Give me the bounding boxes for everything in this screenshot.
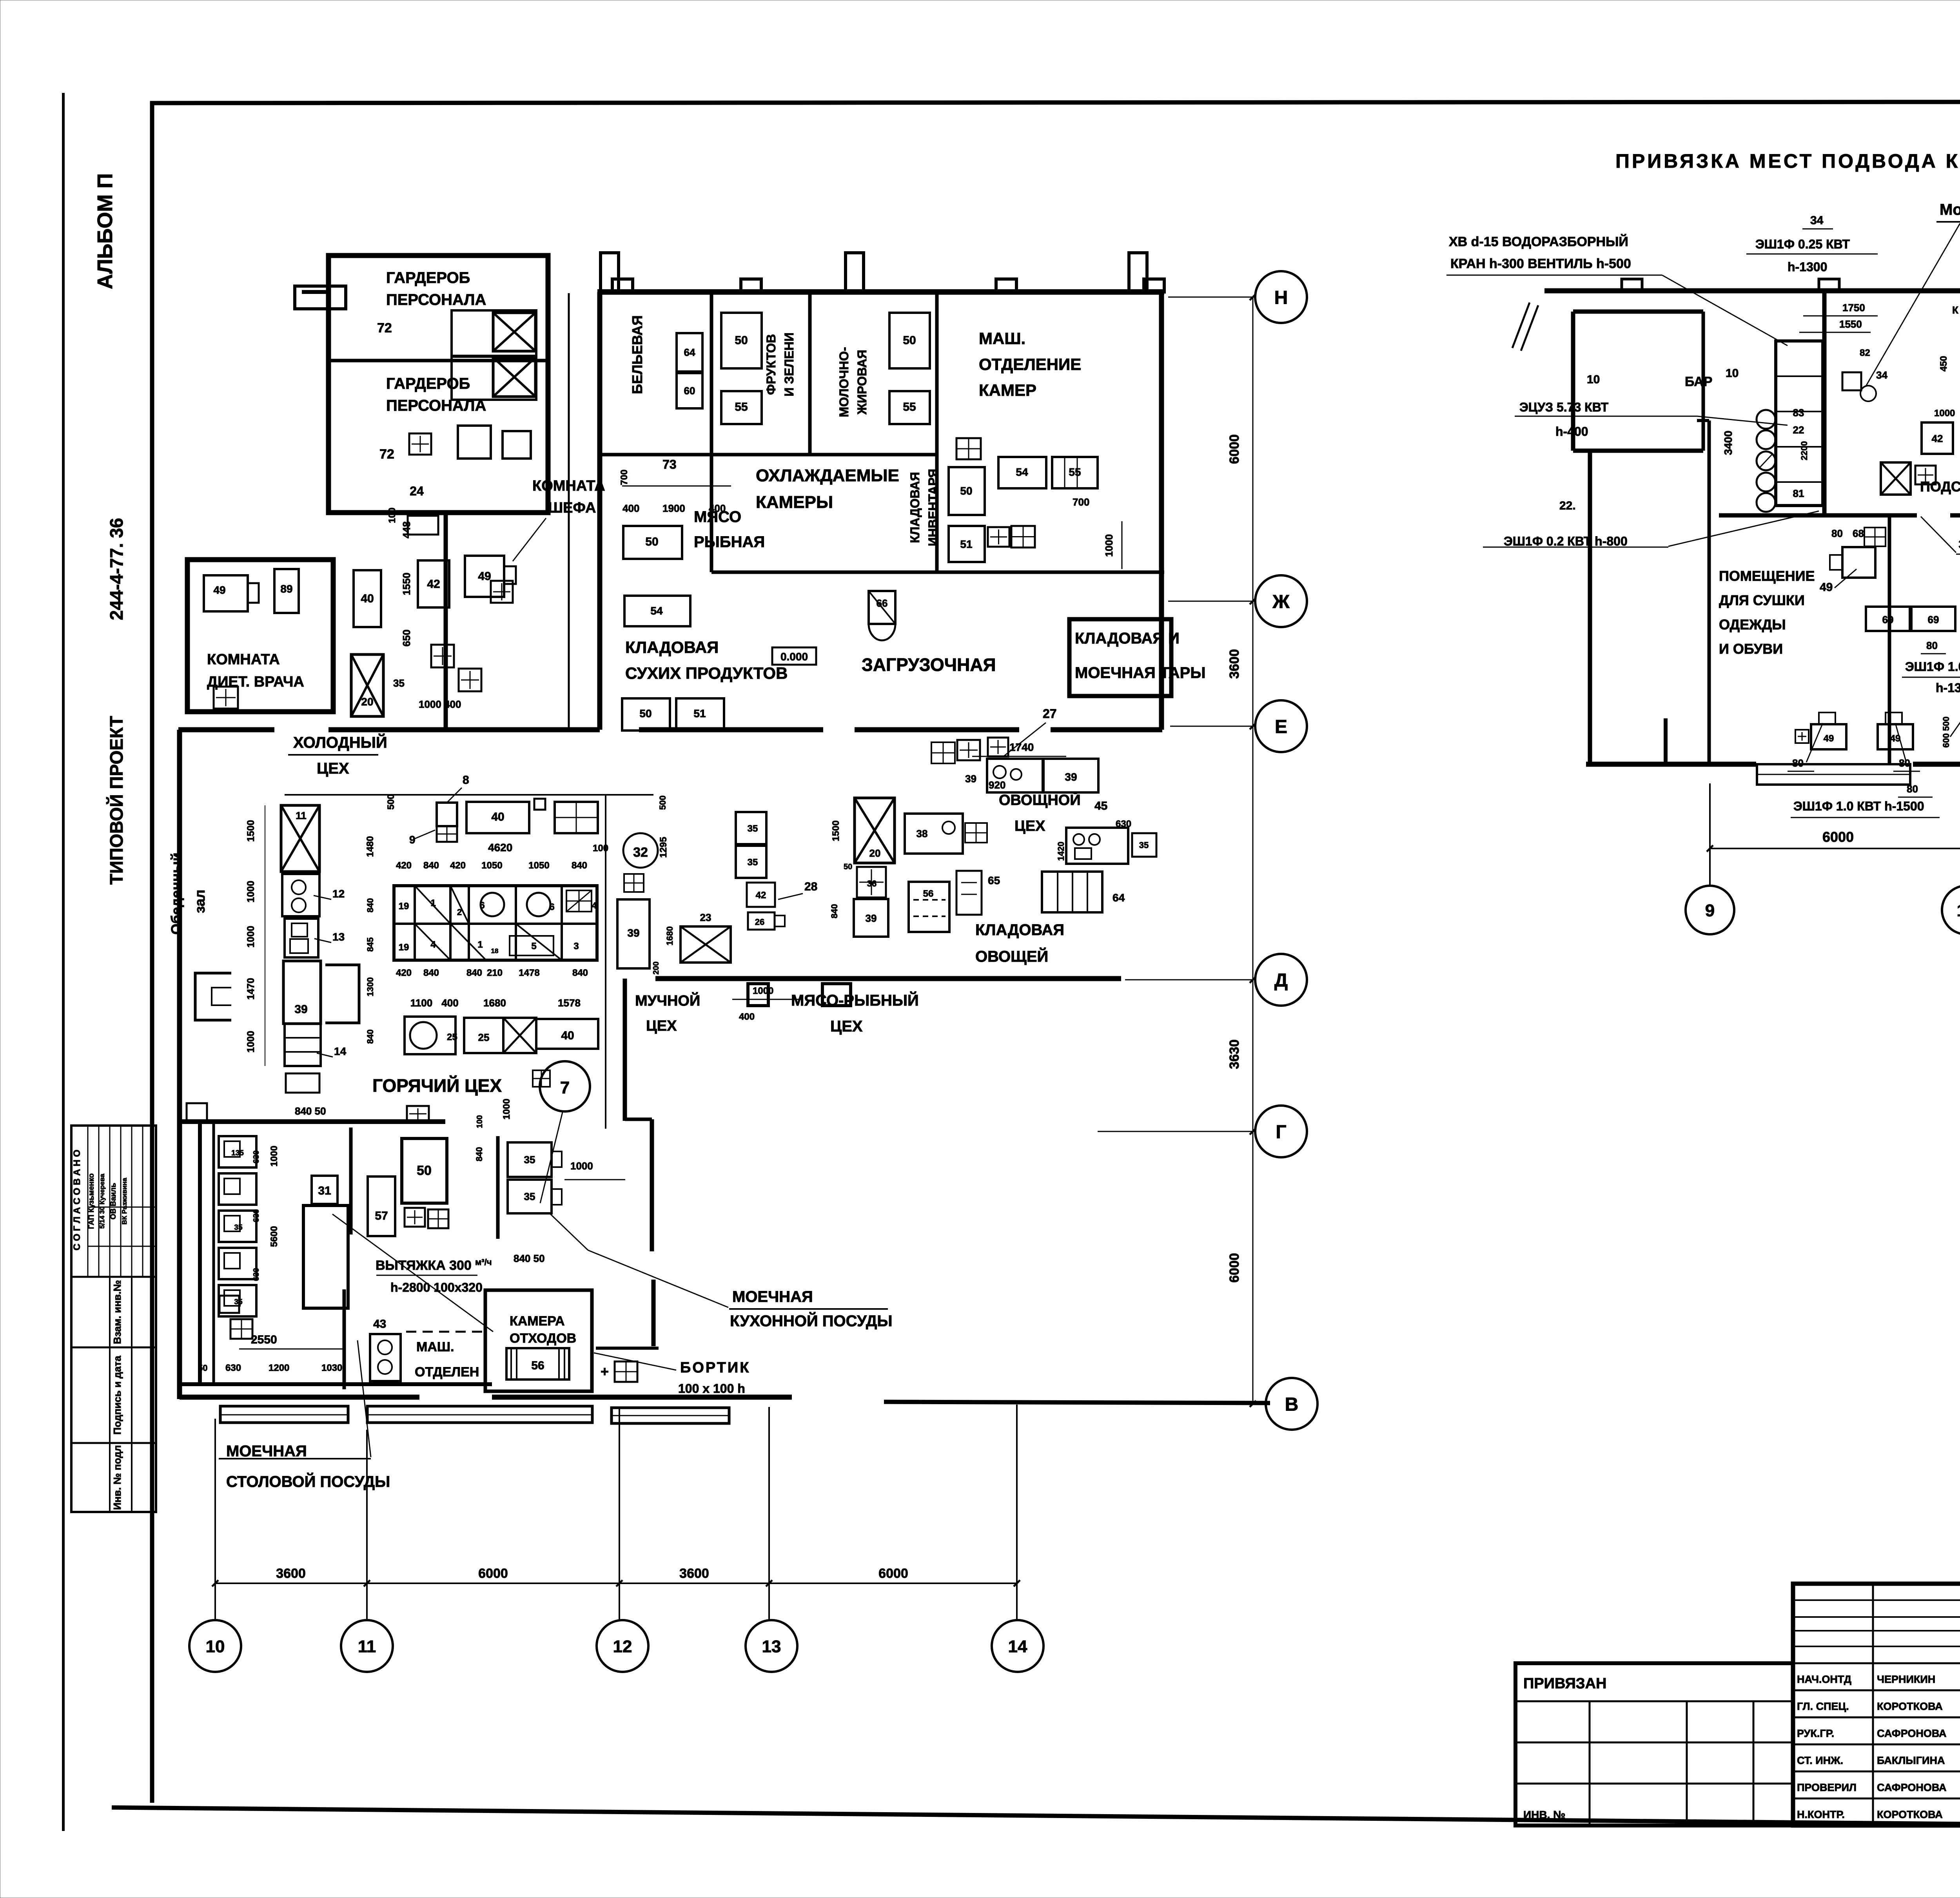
svg-text:81: 81: [1793, 488, 1804, 499]
svg-text:66: 66: [877, 597, 888, 609]
svg-text:Е: Е: [1275, 716, 1287, 737]
svg-text:3: 3: [573, 941, 579, 952]
svg-text:1000: 1000: [753, 986, 773, 996]
svg-text:420: 420: [396, 968, 412, 978]
svg-text:56: 56: [923, 888, 934, 899]
svg-text:10: 10: [1587, 373, 1600, 386]
svg-text:600 500: 600 500: [1941, 716, 1951, 748]
svg-text:РЫБНАЯ: РЫБНАЯ: [694, 533, 765, 551]
svg-text:КОМНАТА: КОМНАТА: [532, 478, 605, 494]
svg-text:20: 20: [361, 696, 373, 708]
svg-text:ИНВЕНТАРЯ: ИНВЕНТАРЯ: [926, 469, 940, 546]
svg-text:5600: 5600: [269, 1226, 279, 1247]
svg-text:42: 42: [427, 578, 440, 591]
svg-text:И ОБУВИ: И ОБУВИ: [1719, 641, 1783, 657]
svg-text:35: 35: [748, 857, 758, 868]
svg-text:АЛЬБОМ П: АЛЬБОМ П: [93, 173, 117, 289]
svg-text:50: 50: [903, 334, 916, 347]
svg-text:3630: 3630: [1227, 1039, 1242, 1069]
svg-text:11: 11: [358, 1637, 376, 1656]
svg-text:69: 69: [1882, 614, 1894, 625]
svg-text:1000: 1000: [269, 1146, 279, 1166]
svg-text:МОЛОЧНО-: МОЛОЧНО-: [837, 347, 851, 417]
svg-text:ЦЕХ: ЦЕХ: [830, 1018, 863, 1035]
svg-text:ИНВ. №: ИНВ. №: [1523, 1809, 1565, 1821]
svg-text:35: 35: [748, 823, 758, 834]
svg-text:К: К: [1952, 304, 1958, 316]
svg-text:31: 31: [318, 1184, 331, 1197]
svg-text:СУХИХ ПРОДУКТОВ: СУХИХ ПРОДУКТОВ: [625, 664, 788, 682]
svg-text:83: 83: [1793, 407, 1804, 419]
svg-text:h-1300: h-1300: [1936, 681, 1960, 695]
svg-text:49: 49: [213, 584, 225, 596]
svg-text:55: 55: [903, 401, 916, 413]
svg-text:10: 10: [1957, 901, 1960, 920]
svg-text:9: 9: [409, 834, 416, 846]
svg-text:КЛАДОВАЯ: КЛАДОВАЯ: [625, 638, 719, 656]
svg-text:65: 65: [988, 874, 1000, 886]
svg-text:ЭШ1Ф 0.25 КВТ: ЭШ1Ф 0.25 КВТ: [1958, 537, 1960, 551]
svg-text:ПОДСОБНАЯ: ПОДСОБНАЯ: [1920, 479, 1960, 495]
svg-text:100 x 100 h: 100 x 100 h: [678, 1381, 745, 1396]
svg-text:Н.КОНТР.: Н.КОНТР.: [1797, 1809, 1845, 1820]
svg-text:35: 35: [393, 677, 405, 689]
svg-text:ПРИВЯЗАН: ПРИВЯЗАН: [1523, 1675, 1606, 1692]
svg-text:700: 700: [619, 470, 630, 485]
svg-text:244-4-77. 36: 244-4-77. 36: [106, 518, 127, 620]
svg-text:3600: 3600: [1227, 649, 1242, 679]
svg-text:51: 51: [693, 707, 706, 720]
svg-text:Н: Н: [1274, 287, 1288, 308]
svg-text:3400: 3400: [1722, 431, 1734, 455]
svg-text:ГАРДЕРОБ: ГАРДЕРОБ: [386, 375, 470, 392]
svg-text:18: 18: [491, 947, 499, 955]
svg-text:5: 5: [531, 941, 536, 952]
svg-text:49: 49: [1820, 581, 1833, 594]
svg-text:КАМЕР: КАМЕР: [979, 381, 1036, 399]
svg-text:450: 450: [1938, 356, 1949, 372]
svg-text:210: 210: [487, 968, 503, 978]
svg-text:БОРТИК: БОРТИК: [680, 1360, 750, 1376]
svg-text:ГОРЯЧИЙ ЦЕХ: ГОРЯЧИЙ ЦЕХ: [372, 1075, 502, 1096]
svg-text:ОТХОДОВ: ОТХОДОВ: [510, 1331, 576, 1346]
svg-text:10: 10: [206, 1637, 225, 1656]
svg-text:1740: 1740: [1009, 741, 1034, 753]
svg-text:135: 135: [231, 1149, 244, 1157]
svg-text:2: 2: [457, 907, 462, 917]
svg-text:Подпись и дата: Подпись и дата: [111, 1356, 123, 1435]
svg-text:34: 34: [1876, 369, 1887, 381]
svg-text:СТОЛОВОЙ ПОСУДЫ: СТОЛОВОЙ ПОСУДЫ: [226, 1472, 390, 1490]
svg-text:100: 100: [475, 1115, 484, 1128]
svg-text:400: 400: [441, 997, 458, 1009]
svg-text:h-2800 100x320: h-2800 100x320: [390, 1280, 483, 1294]
svg-text:1000: 1000: [245, 1031, 256, 1053]
svg-text:КАМЕРЫ: КАМЕРЫ: [756, 493, 833, 512]
svg-text:1470: 1470: [245, 978, 256, 1000]
svg-text:1050: 1050: [528, 860, 549, 871]
svg-text:72: 72: [379, 447, 394, 462]
svg-text:840: 840: [365, 1030, 375, 1044]
svg-text:45: 45: [1094, 799, 1107, 812]
svg-text:Г: Г: [1276, 1122, 1286, 1142]
svg-text:ТИПОВОЙ ПРОЕКТ: ТИПОВОЙ ПРОЕКТ: [106, 716, 127, 885]
svg-text:1000: 1000: [1934, 408, 1955, 419]
svg-text:36: 36: [867, 879, 877, 888]
svg-text:51: 51: [960, 538, 972, 550]
svg-text:50: 50: [960, 485, 972, 497]
svg-text:55: 55: [1069, 466, 1081, 478]
svg-text:НАЧ.ОНТД: НАЧ.ОНТД: [1797, 1673, 1851, 1685]
svg-text:1000 400: 1000 400: [419, 698, 461, 710]
svg-text:4: 4: [592, 901, 597, 910]
svg-text:840: 840: [423, 860, 439, 871]
svg-text:68: 68: [1853, 528, 1864, 539]
svg-text:80: 80: [1792, 757, 1804, 769]
svg-text:ДЛЯ СУШКИ: ДЛЯ СУШКИ: [1719, 592, 1805, 608]
svg-text:38: 38: [916, 828, 928, 839]
svg-text:МОЕЧНАЯ: МОЕЧНАЯ: [226, 1443, 307, 1460]
svg-text:ОВОЩЕЙ: ОВОЩЕЙ: [975, 947, 1048, 965]
svg-text:80: 80: [1899, 757, 1910, 769]
svg-text:зал: зал: [192, 890, 208, 913]
svg-text:ЭШ1Ф 1.0 КВТ: ЭШ1Ф 1.0 КВТ: [1905, 660, 1960, 674]
svg-text:840: 840: [474, 1147, 484, 1162]
svg-text:840: 840: [572, 860, 587, 871]
svg-text:11: 11: [296, 810, 307, 821]
svg-text:6000: 6000: [1822, 829, 1854, 845]
svg-text:1050: 1050: [481, 860, 502, 871]
svg-text:Взам. инв.№: Взам. инв.№: [111, 1280, 123, 1344]
svg-text:ЭШ1Ф 0.2 КВТ h-800: ЭШ1Ф 0.2 КВТ h-800: [1504, 534, 1628, 548]
svg-text:49: 49: [1824, 733, 1834, 744]
svg-text:28: 28: [804, 880, 817, 893]
svg-text:14: 14: [1008, 1637, 1027, 1656]
svg-text:60: 60: [684, 385, 695, 397]
svg-text:840: 840: [423, 968, 439, 978]
svg-text:650: 650: [401, 629, 412, 646]
svg-text:50: 50: [198, 1363, 207, 1373]
svg-text:49: 49: [478, 570, 491, 583]
svg-text:27: 27: [1043, 707, 1057, 721]
svg-text:840: 840: [572, 968, 588, 978]
svg-text:35: 35: [1139, 840, 1149, 850]
svg-text:89: 89: [280, 583, 292, 595]
svg-text:13: 13: [332, 931, 345, 943]
svg-text:h-400: h-400: [1555, 424, 1588, 439]
svg-text:5/14 30 Кучерева: 5/14 30 Кучерева: [98, 1173, 106, 1229]
svg-text:ЭШ1Ф 1.0 КВТ h-1500: ЭШ1Ф 1.0 КВТ h-1500: [1793, 799, 1924, 813]
svg-text:1: 1: [477, 939, 483, 950]
svg-text:3600: 3600: [679, 1566, 709, 1581]
svg-text:43: 43: [373, 1318, 386, 1331]
svg-text:80: 80: [1926, 640, 1938, 651]
svg-text:22.: 22.: [1559, 499, 1576, 512]
svg-text:ВК Разживина: ВК Разживина: [121, 1178, 128, 1225]
svg-text:845: 845: [365, 937, 375, 952]
svg-text:630: 630: [225, 1363, 241, 1373]
svg-text:КУХОННОЙ ПОСУДЫ: КУХОННОЙ ПОСУДЫ: [730, 1312, 893, 1330]
svg-text:САФРОНОВА: САФРОНОВА: [1877, 1782, 1947, 1793]
svg-text:+: +: [601, 1363, 609, 1380]
svg-text:КЛАДОВАЯ И: КЛАДОВАЯ И: [1075, 630, 1180, 647]
svg-text:1900: 1900: [662, 502, 685, 514]
svg-text:ЗАГРУЗОЧНАЯ: ЗАГРУЗОЧНАЯ: [862, 654, 996, 675]
svg-text:ЖИРОВАЯ: ЖИРОВАЯ: [855, 350, 869, 415]
svg-text:1000: 1000: [501, 1099, 512, 1119]
svg-text:СТ. ИНЖ.: СТ. ИНЖ.: [1797, 1755, 1843, 1766]
svg-text:КОРОТКОВА: КОРОТКОВА: [1877, 1809, 1943, 1820]
svg-text:ХВ d-15 ВОДОРАЗБОРНЫЙ: ХВ d-15 ВОДОРАЗБОРНЫЙ: [1449, 234, 1628, 249]
svg-text:39: 39: [866, 912, 877, 924]
svg-text:Моечная: Моечная: [1940, 201, 1960, 218]
svg-text:ЦЕХ: ЦЕХ: [646, 1018, 677, 1034]
svg-text:500: 500: [658, 796, 668, 810]
svg-text:39: 39: [627, 927, 639, 939]
svg-text:h-1300: h-1300: [1788, 260, 1827, 274]
svg-text:1000: 1000: [1103, 534, 1115, 557]
svg-text:12: 12: [613, 1637, 632, 1656]
svg-text:6000: 6000: [478, 1566, 508, 1581]
svg-text:1480: 1480: [365, 836, 376, 857]
svg-text:ЦЕХ: ЦЕХ: [317, 760, 349, 777]
svg-text:25: 25: [447, 1032, 457, 1042]
svg-text:1550: 1550: [401, 573, 412, 595]
svg-text:ПРИВЯЗКА МЕСТ ПОДВОДА КО: ПРИВЯЗКА МЕСТ ПОДВОДА КОММУНИКАЦИЙ: [1615, 150, 1960, 172]
svg-text:КОРОТКОВА: КОРОТКОВА: [1877, 1700, 1943, 1712]
svg-text:40: 40: [491, 810, 504, 823]
svg-text:КРАН h-300 ВЕНТИЛЬ h-500: КРАН h-300 ВЕНТИЛЬ h-500: [1450, 256, 1631, 271]
svg-text:20: 20: [869, 847, 881, 859]
svg-text:1478: 1478: [519, 968, 539, 978]
svg-text:9: 9: [1705, 901, 1715, 920]
svg-text:42: 42: [1932, 433, 1943, 444]
svg-text:МЯСО: МЯСО: [694, 508, 741, 526]
svg-text:ЧЕРНИКИН: ЧЕРНИКИН: [1877, 1673, 1935, 1685]
svg-text:39: 39: [1065, 771, 1077, 783]
svg-text:34: 34: [1810, 214, 1824, 227]
svg-text:1680: 1680: [665, 926, 675, 946]
svg-text:БАКЛЫГИНА: БАКЛЫГИНА: [1877, 1755, 1945, 1766]
svg-text:1420: 1420: [1056, 842, 1066, 861]
svg-text:И ЗЕЛЕНИ: И ЗЕЛЕНИ: [782, 332, 796, 396]
svg-text:ШЕФА: ШЕФА: [548, 500, 596, 516]
svg-text:1300: 1300: [365, 977, 375, 997]
svg-text:55: 55: [735, 401, 748, 413]
svg-text:ОТДЕЛЕНИЕ: ОТДЕЛЕНИЕ: [979, 355, 1081, 373]
svg-text:24: 24: [410, 484, 424, 498]
svg-text:12: 12: [332, 888, 345, 900]
svg-text:72: 72: [377, 321, 392, 335]
svg-text:РУК.ГР.: РУК.ГР.: [1797, 1728, 1834, 1739]
svg-text:1578: 1578: [558, 997, 581, 1009]
svg-text:7: 7: [560, 1078, 570, 1097]
svg-text:САФРОНОВА: САФРОНОВА: [1877, 1728, 1947, 1739]
svg-text:6000: 6000: [1227, 434, 1242, 464]
svg-text:26: 26: [755, 917, 764, 927]
svg-text:64: 64: [684, 346, 695, 358]
svg-text:ОТДЕЛЕН: ОТДЕЛЕН: [415, 1365, 479, 1380]
svg-text:25: 25: [478, 1031, 490, 1043]
svg-text:400: 400: [622, 502, 639, 514]
svg-text:6: 6: [549, 902, 554, 912]
svg-text:МОЕЧНАЯ: МОЕЧНАЯ: [732, 1288, 813, 1305]
svg-text:1680: 1680: [483, 997, 506, 1009]
svg-text:54: 54: [650, 605, 663, 617]
svg-text:50: 50: [417, 1163, 432, 1178]
svg-text:40: 40: [361, 592, 374, 605]
svg-text:50: 50: [844, 863, 852, 871]
svg-text:ДИЕТ. ВРАЧА: ДИЕТ. ВРАЧА: [207, 674, 304, 690]
svg-text:ПЕРСОНАЛА: ПЕРСОНАЛА: [386, 291, 486, 308]
svg-text:3600: 3600: [276, 1566, 306, 1581]
svg-text:35: 35: [524, 1191, 535, 1202]
svg-text:420: 420: [396, 860, 412, 871]
svg-text:Д: Д: [1274, 970, 1288, 991]
svg-text:700: 700: [1073, 496, 1089, 508]
svg-text:500: 500: [386, 794, 396, 810]
svg-text:19: 19: [399, 942, 409, 953]
svg-text:0.000: 0.000: [780, 651, 808, 663]
svg-text:ФРУКТОВ: ФРУКТОВ: [764, 334, 778, 395]
svg-text:КЛАДОВАЯ: КЛАДОВАЯ: [975, 921, 1064, 939]
svg-text:57: 57: [375, 1209, 388, 1222]
svg-text:14: 14: [334, 1045, 347, 1057]
svg-text:1030: 1030: [321, 1363, 342, 1373]
svg-text:ОВ Ваиль: ОВ Ваиль: [109, 1183, 118, 1220]
svg-text:1750: 1750: [1842, 302, 1865, 314]
svg-text:56: 56: [531, 1359, 544, 1372]
svg-text:ГАРДЕРОБ: ГАРДЕРОБ: [386, 269, 470, 286]
svg-text:8: 8: [463, 774, 469, 787]
svg-text:ГЛ. СПЕЦ.: ГЛ. СПЕЦ.: [1797, 1700, 1849, 1712]
svg-text:80: 80: [1831, 528, 1843, 539]
svg-text:КАМЕРА: КАМЕРА: [510, 1314, 565, 1329]
svg-text:840 50: 840 50: [514, 1253, 545, 1264]
svg-text:73: 73: [662, 457, 677, 471]
svg-text:ОДЕЖДЫ: ОДЕЖДЫ: [1719, 616, 1786, 633]
svg-text:ЦЕХ: ЦЕХ: [1014, 818, 1045, 834]
svg-text:В: В: [1285, 1394, 1299, 1415]
svg-text:ЭШ1Ф 0.25 КВТ: ЭШ1Ф 0.25 КВТ: [1755, 237, 1850, 251]
svg-text:448: 448: [401, 521, 412, 538]
svg-text:ОХЛАЖДАЕМЫЕ: ОХЛАЖДАЕМЫЕ: [756, 466, 899, 485]
svg-text:КЛАДОВАЯ: КЛАДОВАЯ: [908, 472, 922, 543]
svg-text:2200: 2200: [1799, 441, 1809, 460]
svg-text:БАР: БАР: [1685, 374, 1712, 389]
svg-text:400: 400: [739, 1012, 755, 1022]
svg-text:ХОЛОДНЫЙ: ХОЛОДНЫЙ: [293, 733, 387, 751]
svg-text:10: 10: [1726, 367, 1739, 380]
svg-text:МУЧНОЙ: МУЧНОЙ: [635, 992, 700, 1009]
svg-text:23: 23: [700, 912, 711, 923]
svg-text:ЭЦУЗ 5.73 КВТ: ЭЦУЗ 5.73 КВТ: [1519, 400, 1609, 414]
svg-text:6000: 6000: [878, 1566, 908, 1581]
svg-text:1500: 1500: [831, 820, 841, 841]
svg-text:6000: 6000: [1227, 1253, 1242, 1283]
svg-text:1295: 1295: [658, 837, 669, 857]
svg-text:ПЕРСОНАЛА: ПЕРСОНАЛА: [386, 397, 486, 414]
svg-text:39: 39: [294, 1003, 307, 1016]
svg-text:35: 35: [234, 1224, 243, 1232]
svg-text:1100: 1100: [410, 997, 432, 1009]
svg-text:6: 6: [479, 900, 485, 911]
svg-text:39: 39: [965, 773, 976, 785]
svg-text:630: 630: [252, 1268, 261, 1281]
svg-text:Ж: Ж: [1272, 591, 1290, 612]
svg-text:1500: 1500: [245, 820, 256, 842]
svg-text:С О Г Л А С О В А Н О: С О Г Л А С О В А Н О: [72, 1149, 82, 1250]
svg-text:МАШ.: МАШ.: [979, 329, 1025, 348]
svg-text:1550: 1550: [1839, 318, 1862, 330]
svg-text:МОЕЧНАЯ ТАРЫ: МОЕЧНАЯ ТАРЫ: [1075, 664, 1206, 682]
svg-text:200: 200: [652, 961, 661, 974]
svg-text:420: 420: [450, 860, 466, 871]
svg-text:22: 22: [1793, 424, 1804, 436]
svg-text:ВЫТЯЖКА 300: ВЫТЯЖКА 300: [376, 1258, 472, 1273]
svg-text:82: 82: [1860, 348, 1870, 358]
svg-text:840 50: 840 50: [295, 1105, 326, 1117]
svg-text:19: 19: [399, 901, 409, 912]
svg-text:80: 80: [1907, 783, 1918, 795]
svg-text:69: 69: [1928, 614, 1939, 625]
svg-text:ПРОВЕРИЛ: ПРОВЕРИЛ: [1797, 1782, 1857, 1793]
svg-text:50: 50: [639, 707, 652, 720]
svg-text:4620: 4620: [488, 841, 512, 854]
svg-text:100: 100: [593, 843, 608, 854]
svg-text:1000: 1000: [245, 926, 256, 948]
svg-text:920: 920: [989, 779, 1005, 791]
svg-text:64: 64: [1112, 892, 1125, 904]
svg-text:100: 100: [387, 508, 397, 523]
svg-text:4: 4: [430, 939, 436, 950]
svg-text:630: 630: [252, 1150, 261, 1163]
svg-text:м³/ч: м³/ч: [475, 1257, 492, 1267]
svg-text:Инв. № подл: Инв. № подл: [111, 1445, 123, 1510]
svg-text:50: 50: [735, 334, 748, 347]
svg-text:МЯСО-РЫБНЫЙ: МЯСО-РЫБНЫЙ: [791, 991, 919, 1009]
svg-text:50: 50: [645, 535, 658, 548]
svg-text:1200: 1200: [269, 1363, 289, 1373]
svg-text:2550: 2550: [251, 1333, 277, 1346]
svg-text:54: 54: [1016, 466, 1028, 478]
svg-text:КОМНАТА: КОМНАТА: [207, 651, 280, 668]
svg-text:35: 35: [524, 1154, 535, 1166]
svg-text:ПОМЕЩЕНИЕ: ПОМЕЩЕНИЕ: [1719, 568, 1815, 584]
svg-text:БЕЛЬЕВАЯ: БЕЛЬЕВАЯ: [629, 315, 645, 394]
svg-text:630: 630: [252, 1209, 261, 1222]
svg-text:40: 40: [561, 1029, 574, 1042]
svg-text:ГАП Кузьменко: ГАП Кузьменко: [87, 1173, 96, 1229]
svg-text:1000: 1000: [245, 881, 256, 903]
svg-text:32: 32: [633, 845, 648, 860]
svg-text:13: 13: [762, 1637, 781, 1656]
svg-text:840: 840: [829, 904, 839, 919]
svg-text:1000: 1000: [570, 1160, 593, 1172]
svg-text:1: 1: [430, 898, 436, 908]
svg-text:МАШ.: МАШ.: [416, 1340, 454, 1354]
svg-text:840: 840: [466, 968, 482, 978]
svg-text:42: 42: [756, 890, 766, 901]
svg-text:840: 840: [365, 898, 375, 913]
